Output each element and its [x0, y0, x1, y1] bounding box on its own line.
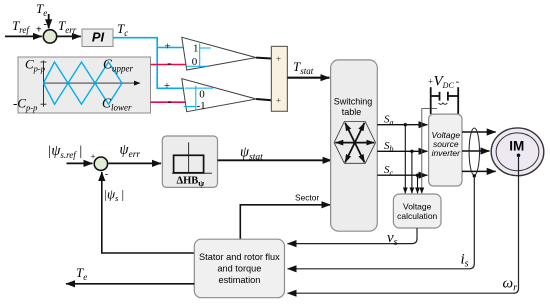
svg-text:Voltage: Voltage — [403, 202, 432, 212]
svg-text:Switching: Switching — [334, 96, 373, 106]
svg-text:table: table — [342, 107, 362, 117]
svg-text:+: + — [428, 77, 433, 87]
svg-text:ΔHBψ: ΔHBψ — [177, 176, 205, 189]
svg-text:estimation: estimation — [218, 275, 260, 285]
svg-text:+: + — [276, 55, 281, 65]
svg-text:-: - — [167, 93, 171, 108]
svg-text:Stator and rotor flux: Stator and rotor flux — [199, 252, 280, 262]
svg-text:inverter: inverter — [432, 148, 462, 158]
svg-text:+: + — [164, 80, 170, 92]
svg-text:-: - — [456, 76, 460, 88]
svg-text:-: - — [44, 19, 47, 30]
svg-text:IM: IM — [509, 139, 524, 154]
svg-text:-: - — [105, 169, 108, 179]
svg-text:calculation: calculation — [397, 211, 437, 221]
svg-text:0: 0 — [199, 88, 205, 100]
svg-text:-: - — [167, 55, 171, 70]
svg-text:+: + — [91, 152, 96, 162]
svg-text:0: 0 — [192, 56, 198, 68]
svg-text:+: + — [36, 25, 42, 36]
svg-text:PI: PI — [92, 30, 105, 45]
svg-text:-1: -1 — [197, 100, 206, 112]
svg-text:|ψs |: |ψs | — [104, 187, 125, 204]
svg-text:+: + — [276, 97, 281, 107]
svg-text:1: 1 — [193, 42, 199, 54]
svg-text:Sector: Sector — [295, 192, 319, 202]
svg-text:and torque: and torque — [217, 264, 261, 274]
svg-text:+: + — [164, 41, 170, 53]
